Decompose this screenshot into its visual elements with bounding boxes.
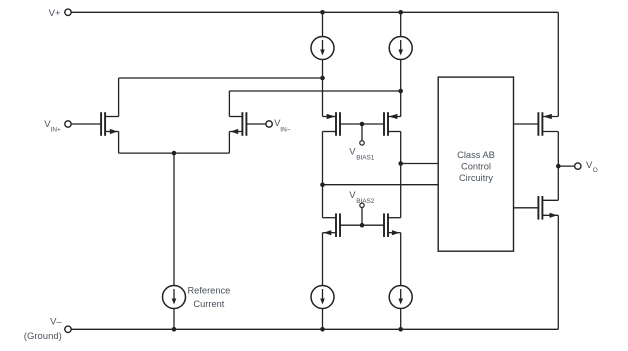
V_BIAS2 terminal [360, 203, 364, 207]
junction node B (M2 drain) [398, 89, 403, 94]
junction top rail at left current source [320, 10, 325, 15]
wire M5 source down [322, 233, 324, 286]
svg-text:V+: V+ [49, 8, 61, 19]
wire M2 drain to node B [229, 90, 400, 92]
wire M8 drain up [557, 166, 559, 200]
svg-text:(Ground): (Ground) [24, 331, 62, 342]
junction rail at reference [172, 327, 177, 332]
wire node D to block [401, 163, 439, 165]
junction top rail at right current source [398, 10, 403, 15]
svg-text:Control: Control [461, 162, 491, 172]
transistor M6 (nmos cascode right) [384, 213, 401, 237]
transistor M8 (output nmos) [538, 196, 558, 220]
V_BIAS1 terminal [360, 141, 364, 145]
svg-text:BIAS1: BIAS1 [356, 155, 375, 162]
wire M8 gate [514, 207, 539, 209]
wire M7 gate [514, 123, 539, 125]
wire M1 source down [118, 132, 120, 154]
wire V+ rail right drop [557, 12, 559, 116]
transistor M2 (input -) [229, 112, 246, 136]
current source I2 [389, 37, 412, 60]
current source I_REF (reference) [163, 286, 186, 309]
wire M1 drain to node A [119, 77, 323, 79]
current source I3 [311, 286, 334, 309]
wire M1 gate [71, 123, 101, 125]
wire V- rail [71, 328, 558, 330]
wire VBIAS2 stub [361, 208, 363, 226]
junction output node [556, 164, 561, 169]
junction VBIAS1 gate node [360, 122, 365, 127]
wire reference to V- rail [173, 309, 175, 330]
wire M2 drain up [228, 91, 230, 117]
block Class AB Control Circuitry [438, 77, 513, 251]
wire M1 drain up [118, 78, 120, 117]
current source I1 [311, 37, 334, 60]
svg-text:Class AB: Class AB [457, 150, 495, 160]
wire I3 to rail [322, 309, 324, 330]
svg-text:Circuitry: Circuitry [459, 173, 493, 183]
V- terminal [65, 326, 71, 332]
svg-text:O: O [593, 167, 598, 174]
wire VBIAS1 stub [361, 124, 363, 141]
wire CS1 down [322, 60, 324, 117]
junction tail node [172, 151, 177, 156]
svg-text:V–: V– [50, 317, 62, 328]
junction rail at I4 [398, 327, 403, 332]
wire output to terminal [558, 165, 574, 167]
svg-text:Current: Current [193, 299, 224, 309]
wire node C to block [323, 184, 439, 186]
wire CS2 down [400, 60, 402, 117]
wire CS1 to rail [322, 12, 324, 36]
current source I4 [389, 286, 412, 309]
transistor M3 (pmos cascode left) [323, 112, 341, 136]
svg-text:Reference: Reference [187, 286, 230, 296]
wire M3 drain down [322, 132, 324, 218]
wire M8 source down [557, 215, 559, 329]
V+ terminal [65, 9, 71, 15]
wire M2 source down [228, 132, 230, 154]
wire M2 gate [246, 123, 266, 125]
junction node D to block [398, 161, 403, 166]
junction node C to block [320, 182, 325, 187]
V_IN+ terminal [65, 121, 71, 127]
transistor M7 (output pmos) [538, 112, 558, 136]
V_IN- terminal [266, 121, 272, 127]
V_O terminal [575, 163, 581, 169]
wire M7 drain down [557, 132, 559, 167]
junction rail at I3 [320, 327, 325, 332]
wire M3-M4 gates [340, 123, 384, 125]
wire M6 source down [400, 233, 402, 286]
wire M4 drain down [400, 132, 402, 218]
wire diff tail [119, 152, 230, 154]
svg-text:BIAS2: BIAS2 [356, 198, 375, 205]
wire I4 to rail [400, 309, 402, 330]
transistor M1 (input +) [101, 112, 119, 136]
transistor M5 (nmos cascode left) [323, 213, 341, 237]
wire CS2 to rail [400, 12, 402, 36]
junction node A (M1 drain) [320, 76, 325, 81]
junction VBIAS2 gate node [360, 223, 365, 228]
svg-text:IN+: IN+ [51, 126, 61, 133]
transistor M4 (pmos cascode right) [384, 112, 401, 136]
wire M5-M6 gates [340, 224, 384, 226]
svg-text:IN−: IN− [280, 126, 290, 133]
wire V+ rail [71, 11, 558, 13]
wire tail down to reference [173, 153, 175, 285]
